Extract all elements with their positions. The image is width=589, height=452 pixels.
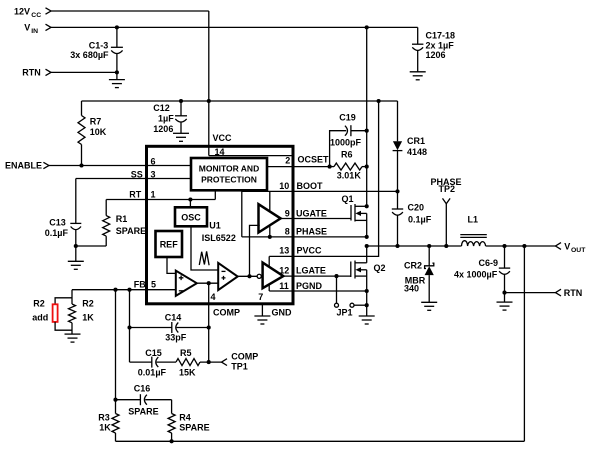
reference block REF [156, 231, 183, 257]
junction dot RT/OSC [188, 197, 192, 201]
resistor R1 SPARE [76, 200, 146, 247]
jumper JP1 [335, 276, 367, 318]
capacitor C12 1uF 1206 [153, 101, 187, 134]
op-amp error amplifier [176, 271, 197, 296]
svg-text:1: 1 [151, 189, 156, 199]
ground (C12) [173, 133, 189, 141]
capacitor C16 SPARE [116, 384, 172, 417]
wire ENABLE to pin 6 / monitor box [49, 165, 191, 167]
wire RTN output line [505, 292, 556, 294]
wire C6-9 to ground [504, 293, 506, 303]
svg-text:12V: 12V [14, 6, 30, 16]
svg-text:V: V [564, 241, 570, 251]
junction dot Q1 source / PHASE [365, 235, 369, 239]
wire PHASE internal line [242, 236, 367, 238]
wire pin1 RT internal riser to monitor box [214, 190, 216, 200]
svg-text:PVCC: PVCC [297, 246, 323, 256]
junction dot phase node / C20 [395, 244, 399, 248]
svg-text:COMP: COMP [213, 308, 240, 318]
junction dot rail/12V vertical [207, 99, 211, 103]
svg-text:RTN: RTN [22, 68, 41, 78]
capacitor C6-9 4x 1000uF [454, 246, 510, 293]
wire PVCC pin 13 line [269, 101, 378, 256]
svg-text:SPARE: SPARE [116, 226, 146, 236]
svg-text:TP2: TP2 [439, 184, 456, 194]
svg-text:1K: 1K [99, 423, 111, 433]
wire C17-18 drop from VIN [417, 27, 419, 44]
svg-text:add: add [32, 313, 48, 323]
ground (C17-18) [410, 72, 426, 80]
svg-text:7: 7 [258, 292, 263, 302]
svg-text:CR1: CR1 [407, 136, 425, 146]
svg-text:TP1: TP1 [231, 362, 248, 372]
junction dot VOUT/C6-9 [502, 244, 506, 248]
ground (Q2 source / JP1) [359, 316, 375, 324]
svg-text:BOOT: BOOT [297, 181, 324, 191]
junction dot Q1 drain [365, 204, 369, 208]
wire comparator output [238, 275, 258, 277]
svg-text:V: V [24, 23, 30, 33]
svg-text:PROTECTION: PROTECTION [201, 174, 257, 184]
junction dot FB compensation [127, 288, 131, 292]
junction dot RTN/C1-3 [115, 70, 119, 74]
wire PVCC feed to LGATE driver top [268, 256, 270, 267]
node RTN input connector (top) [22, 68, 51, 78]
svg-text:CR2: CR2 [404, 260, 422, 270]
svg-text:LGATE: LGATE [296, 265, 326, 275]
resistor R4 SPARE [168, 400, 210, 442]
svg-text:14: 14 [215, 147, 225, 157]
svg-text:OSC: OSC [181, 212, 201, 222]
svg-text:R4: R4 [179, 413, 191, 423]
wire UGATE pin 9 to Q1 gate [281, 218, 351, 220]
junction dot VIN/Q1 feed [365, 25, 369, 29]
resistor R3 1K [98, 413, 119, 442]
junction dot R5/COMP [207, 360, 211, 364]
svg-text:C20: C20 [408, 203, 425, 213]
junction dot comparator output [247, 274, 251, 278]
svg-text:13: 13 [279, 246, 289, 256]
svg-text:C13: C13 [49, 218, 66, 228]
svg-text:10: 10 [279, 181, 289, 191]
wire SS vertical to C13 [75, 179, 77, 224]
oscillator block OSC [175, 207, 207, 226]
wire FB pin 5 line [72, 289, 176, 291]
svg-text:ISL6522: ISL6522 [202, 233, 236, 243]
svg-text:9: 9 [285, 208, 290, 218]
wire VCC rail (y=101) [82, 100, 398, 102]
ground (CR2) [421, 302, 437, 310]
svg-text:340: 340 [404, 283, 419, 293]
svg-text:IN: IN [31, 28, 38, 35]
svg-text:10K: 10K [90, 127, 107, 137]
test point TP1 COMP [222, 352, 259, 372]
resistor R7 10K [78, 101, 107, 166]
svg-text:SS: SS [131, 169, 143, 179]
svg-text:CC: CC [31, 12, 41, 19]
svg-text:8: 8 [285, 227, 290, 237]
junction dot C14/COMP [207, 325, 211, 329]
svg-text:3x 680µF: 3x 680µF [70, 50, 109, 60]
wire OSC box to RT line [189, 200, 191, 208]
ground (C6-9/RTN) [497, 302, 513, 310]
svg-text:FB: FB [134, 280, 146, 290]
svg-text:0.1µF: 0.1µF [408, 214, 432, 224]
wire FB to R2 divider [71, 290, 73, 304]
resistor R2 add (red) [32, 298, 72, 330]
svg-text:Q2: Q2 [374, 263, 386, 273]
diode CR1 4148 [393, 101, 427, 191]
junction dot JP1/ground column [365, 303, 369, 307]
svg-text:R3: R3 [98, 413, 110, 423]
wire pin2 OCSET from monitor box to outside [267, 166, 330, 168]
wire L1 to VOUT [486, 245, 556, 247]
wire FB vertical to R3/C16 [115, 290, 117, 414]
svg-text:1000pF: 1000pF [330, 138, 362, 148]
resistor R2 1K [69, 299, 95, 335]
node 12VCC input connector [14, 6, 51, 18]
svg-text:VCC: VCC [213, 133, 233, 143]
svg-text:4x 1000µF: 4x 1000µF [454, 269, 498, 279]
svg-text:PHASE: PHASE [296, 227, 327, 237]
svg-text:OUT: OUT [571, 247, 586, 254]
capacitor C14 33pF [130, 312, 209, 342]
op-amp LGATE driver [263, 263, 284, 289]
junction dot OCSET branch [328, 165, 332, 169]
junction dot error amp output / COMP [207, 281, 211, 285]
wire internal VCC line to right edge [209, 155, 292, 157]
node RTN output connector [556, 288, 583, 298]
svg-text:2: 2 [285, 156, 290, 166]
junction dot BOOT/CR1/C20 [395, 189, 399, 193]
svg-text:C15: C15 [145, 348, 162, 358]
svg-text:OCSET: OCSET [298, 155, 330, 165]
IC U1 border [147, 146, 294, 303]
wire 12VCC horizontal to corner [51, 10, 209, 12]
ground (C13/R1) [68, 261, 84, 269]
svg-text:1206: 1206 [426, 50, 446, 60]
wire 12VCC vertical down to VCC pin 14 [208, 11, 210, 148]
op-amp UGATE driver [259, 204, 281, 232]
svg-text:3: 3 [151, 169, 156, 179]
junction dot rail/PVCC riser [377, 99, 381, 103]
node VOUT output connector [556, 241, 587, 254]
svg-text:R2: R2 [33, 299, 45, 309]
node VIN input connector [24, 23, 51, 36]
svg-text:R1: R1 [116, 214, 128, 224]
capacitor C13 0.1uF [45, 218, 82, 262]
capacitor C20 0.1uF (bootstrap) [392, 191, 432, 246]
ground (R2) [65, 334, 81, 342]
junction dot C16 left [113, 398, 117, 402]
wire pin14 VCC stub into IC [208, 148, 210, 156]
svg-text:SPARE: SPARE [179, 423, 209, 433]
svg-text:ENABLE: ENABLE [5, 161, 42, 171]
node ENABLE input connector [5, 161, 49, 171]
capacitor C15 0.01uF [130, 348, 177, 377]
junction dot VIN/C1-3 [115, 25, 119, 29]
svg-text:3.01K: 3.01K [337, 170, 362, 180]
junction dot PGND/Q2 source [365, 289, 369, 293]
wire bottom feedback rail [116, 440, 525, 442]
svg-text:C16: C16 [134, 384, 151, 394]
svg-text:PGND: PGND [296, 281, 323, 291]
wire COMP vertical pin 4 [208, 283, 210, 362]
wire GND pin 7 stub [261, 305, 263, 316]
junction dot LGATE/JP1 [334, 274, 338, 278]
svg-text:6: 6 [151, 156, 156, 166]
wire phase node to L1 [367, 245, 462, 247]
svg-text:C14: C14 [165, 312, 182, 322]
junction dot R7/ENABLE [79, 163, 83, 167]
svg-text:0.1µF: 0.1µF [45, 228, 69, 238]
sawtooth waveform symbol [199, 251, 209, 265]
junction dot VOUT/feedback [522, 244, 526, 248]
svg-text:RTN: RTN [564, 288, 583, 298]
capacitor C1-3 3x 680uF [70, 27, 123, 79]
junction dot R6/VIN [365, 165, 369, 169]
resistor R5 15K [176, 348, 222, 377]
transistor Q1 [342, 194, 367, 237]
capacitor C19 1000pF [330, 113, 367, 167]
svg-text:12: 12 [279, 265, 289, 275]
svg-text:1µF: 1µF [158, 113, 174, 123]
ground (C1-3) [109, 80, 125, 88]
junction dot phase node / TP2 [444, 244, 448, 248]
svg-text:15K: 15K [179, 367, 196, 377]
svg-text:RT: RT [129, 189, 141, 199]
svg-text:4148: 4148 [407, 147, 427, 157]
wire BOOT/PHASE internal left vertical [241, 191, 243, 237]
junction dot rail/C12 [179, 99, 183, 103]
junction dot C6-9/RTN [502, 291, 506, 295]
inverter bubble LGATE driver [257, 274, 261, 278]
svg-text:Q1: Q1 [342, 194, 354, 204]
junction dot driver/PHASE [268, 235, 272, 239]
svg-text:4: 4 [211, 292, 216, 302]
wire error amp output to comparator and COMP [197, 282, 218, 284]
ground (IC GND) [254, 316, 270, 324]
wire RT pin 1 [106, 199, 215, 201]
svg-text:1206: 1206 [153, 124, 173, 134]
svg-text:C6-9: C6-9 [479, 258, 499, 268]
svg-text:11: 11 [279, 281, 289, 291]
wire OSC output to PWM comparator [191, 226, 218, 270]
wire REF output to error amp [167, 257, 176, 273]
inductor L1 [460, 215, 487, 247]
svg-text:JP1: JP1 [337, 308, 353, 318]
wire BOOT feed to UGATE driver top [269, 191, 271, 211]
svg-text:R5: R5 [180, 348, 192, 358]
wire comparator output riser to UGATE driver [250, 225, 260, 276]
resistor R6 3.01K [330, 150, 367, 181]
svg-text:REF: REF [160, 240, 179, 250]
wire LGATE driver bottom to PGND [268, 284, 270, 291]
transistor Q2 [351, 246, 386, 316]
svg-text:SPARE: SPARE [128, 407, 158, 417]
junction dot R4/bottom rail [170, 439, 174, 443]
wire LGATE pin 12 to Q2 gate [283, 275, 351, 277]
junction dot C13/R1 [74, 244, 78, 248]
svg-text:U1: U1 [209, 220, 221, 230]
diode CR2 MBR340 (schottky) [404, 246, 434, 302]
wire FB vertical to compensation [129, 290, 131, 362]
wire VIN vertical to Q1 drain [366, 27, 368, 206]
op-amp PWM comparator [218, 263, 238, 290]
monitor and protection block U1 [191, 158, 267, 190]
test point TP2 PHASE [431, 177, 462, 246]
wire UGATE driver bottom to PHASE [269, 226, 271, 237]
svg-text:5: 5 [151, 280, 156, 290]
junction dot phase node / Q1-Q2 [365, 244, 369, 248]
svg-text:R6: R6 [341, 150, 353, 160]
svg-text:C19: C19 [339, 113, 356, 123]
svg-text:GND: GND [272, 308, 293, 318]
junction dot FB divider 1 [113, 288, 117, 292]
junction dot C14 left [127, 325, 131, 329]
svg-text:MONITOR AND: MONITOR AND [199, 163, 259, 173]
svg-text:33pF: 33pF [165, 333, 187, 343]
wire RTN to C1-3 [51, 71, 117, 73]
svg-text:COMP: COMP [231, 352, 258, 362]
junction dot phase node / CR2 [427, 244, 431, 248]
wire PGND pin 11 line [269, 290, 367, 292]
svg-text:1K: 1K [82, 313, 94, 323]
svg-text:UGATE: UGATE [296, 208, 327, 218]
capacitor C17-18 2x 1uF 1206 [412, 31, 455, 72]
wire BOOT internal line [242, 190, 398, 192]
svg-text:L1: L1 [468, 215, 479, 225]
svg-text:0.01µF: 0.01µF [138, 367, 167, 377]
svg-text:R7: R7 [90, 117, 102, 127]
wire SS pin 3 [76, 178, 191, 180]
wire feedback VOUT riser [523, 246, 525, 441]
svg-text:C1-3: C1-3 [89, 40, 109, 50]
svg-text:C17-18: C17-18 [426, 31, 456, 41]
svg-text:C12: C12 [153, 103, 170, 113]
wire VIN horizontal rail [51, 26, 418, 28]
junction dot C19/VIN [365, 129, 369, 133]
svg-text:R2: R2 [82, 299, 94, 309]
